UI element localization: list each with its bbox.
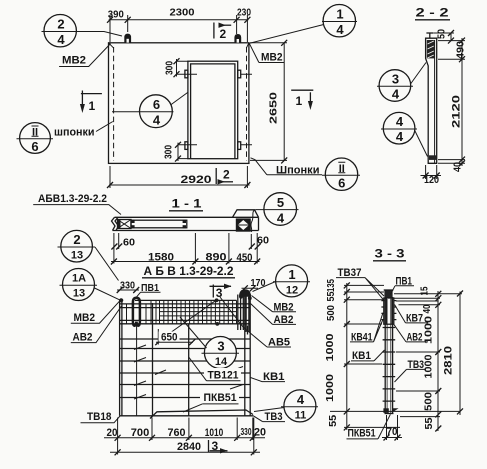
opening tab top-right bbox=[238, 70, 241, 78]
keys dashed line right bbox=[246, 47, 248, 161]
right dimension 2650 bbox=[250, 43, 287, 161]
label TV121 bbox=[204, 368, 241, 380]
svg-text:300: 300 bbox=[165, 61, 176, 75]
svg-text:11: 11 bbox=[295, 410, 307, 422]
svg-text:4: 4 bbox=[396, 129, 404, 144]
panel corner chamfer left bbox=[109, 43, 114, 48]
svg-text:2120: 2120 bbox=[451, 95, 463, 128]
svg-text:1580: 1580 bbox=[148, 252, 174, 264]
svg-text:13: 13 bbox=[71, 250, 83, 262]
leader 2/13 bbox=[95, 247, 119, 281]
callout circle 3/4 bbox=[379, 70, 411, 102]
embedded KV7 block bbox=[384, 298, 394, 324]
svg-text:50: 50 bbox=[437, 29, 448, 39]
svg-text:3: 3 bbox=[216, 286, 223, 300]
vertical bar under loop bbox=[136, 324, 138, 416]
section marker 3 top bbox=[212, 285, 214, 298]
leader 3/4 bbox=[411, 63, 427, 85]
main dim line bbox=[111, 261, 260, 263]
bottom dimension 2920 bbox=[110, 166, 247, 188]
svg-text:330: 330 bbox=[241, 427, 252, 438]
svg-text:МВ2: МВ2 bbox=[261, 52, 283, 64]
vertical bar at 700 bbox=[152, 303, 154, 416]
left chain line bbox=[346, 283, 348, 430]
svg-text:4: 4 bbox=[277, 211, 285, 226]
section marker 3 bottom bbox=[208, 440, 210, 452]
svg-text:4: 4 bbox=[297, 392, 305, 407]
svg-text:МВ2: МВ2 bbox=[62, 55, 86, 67]
svg-text:135: 135 bbox=[326, 279, 337, 292]
svg-text:1000: 1000 bbox=[325, 333, 336, 362]
section marker 2 top bbox=[213, 23, 215, 39]
callout circle 2/13 bbox=[61, 230, 93, 262]
dim 170 top right bbox=[242, 287, 259, 289]
svg-text:3: 3 bbox=[212, 439, 219, 453]
svg-text:760: 760 bbox=[168, 427, 186, 439]
svg-text:3 - 3: 3 - 3 bbox=[375, 247, 405, 261]
trapezoid bump right bbox=[233, 210, 259, 218]
section marker 2 bottom bbox=[215, 168, 217, 184]
cage horizontal bars bbox=[120, 339, 251, 398]
opening inner bbox=[191, 64, 235, 159]
bottom dim row 2 (2840) bbox=[110, 451, 260, 453]
section marker 1 right bbox=[291, 89, 313, 91]
svg-text:450: 450 bbox=[237, 252, 253, 264]
svg-text:2 - 2: 2 - 2 bbox=[416, 6, 449, 20]
svg-text:1010: 1010 bbox=[205, 427, 224, 439]
leader 4/11 bbox=[254, 408, 284, 412]
svg-text:2300: 2300 bbox=[170, 8, 195, 19]
svg-text:1000: 1000 bbox=[325, 373, 336, 402]
left embed block bbox=[118, 220, 132, 229]
callout circle 6/4 bbox=[140, 95, 173, 128]
svg-text:4: 4 bbox=[153, 113, 161, 128]
keys dashed line left bbox=[113, 47, 115, 161]
left chain ticks bbox=[344, 282, 350, 430]
top cap block bbox=[384, 290, 392, 298]
right loop blob bbox=[239, 289, 251, 297]
dim 50 bbox=[434, 33, 465, 41]
svg-text:650: 650 bbox=[161, 332, 178, 344]
right bar bundle bbox=[238, 295, 249, 333]
svg-text:1: 1 bbox=[336, 7, 343, 22]
svg-text:300: 300 bbox=[164, 145, 175, 159]
svg-text:1: 1 bbox=[89, 99, 96, 113]
svg-text:13: 13 bbox=[73, 288, 85, 300]
leader 1A/13 bbox=[95, 288, 120, 300]
svg-text:700: 700 bbox=[131, 427, 150, 439]
bottom lintel bar PKV51 bbox=[150, 410, 253, 419]
svg-text:60: 60 bbox=[123, 238, 135, 249]
svg-text:55: 55 bbox=[424, 417, 435, 429]
callout circle 4/11 bbox=[284, 390, 316, 422]
callout circle 1/4 bbox=[323, 5, 355, 37]
svg-text:60: 60 bbox=[257, 236, 269, 247]
member outline bbox=[426, 38, 437, 163]
right chain1 line bbox=[437, 291, 439, 431]
callout circle 1/12 bbox=[276, 265, 308, 297]
right chain1 ticks bbox=[435, 291, 441, 432]
svg-text:55: 55 bbox=[326, 291, 337, 301]
svg-text:4: 4 bbox=[57, 32, 65, 47]
svg-text:20: 20 bbox=[254, 427, 266, 439]
svg-text:2920: 2920 bbox=[181, 174, 212, 186]
diagonal leader D1 from marker 3 bbox=[170, 300, 216, 333]
overall chain 2810 bbox=[459, 292, 461, 416]
lifting loop left bbox=[124, 34, 131, 43]
svg-text:1000: 1000 bbox=[424, 354, 435, 378]
svg-text:ТВ18: ТВ18 bbox=[87, 411, 112, 423]
svg-text:500: 500 bbox=[326, 305, 337, 321]
dim extensions below bar bbox=[114, 233, 257, 264]
svg-text:МВ2: МВ2 bbox=[74, 312, 96, 324]
svg-text:2: 2 bbox=[73, 232, 80, 247]
svg-text:5: 5 bbox=[277, 195, 284, 210]
svg-text:490: 490 bbox=[456, 41, 467, 59]
svg-text:2810: 2810 bbox=[443, 346, 455, 375]
right edge verticals bbox=[245, 294, 250, 416]
vertical bar at opening edge bbox=[188, 324, 190, 416]
dim 330 top bbox=[117, 289, 139, 291]
bar outline with broken left end bbox=[115, 216, 259, 218]
svg-text:1 - 1: 1 - 1 bbox=[172, 197, 202, 211]
svg-text:2650: 2650 bbox=[269, 91, 280, 124]
leader shponki right bbox=[251, 158, 267, 175]
leader from 2/4 to loop bbox=[79, 32, 122, 37]
svg-text:15: 15 bbox=[420, 286, 431, 295]
leaders TV37 bbox=[365, 278, 385, 301]
callout circle II/6 right bbox=[325, 158, 357, 190]
junction dots bbox=[119, 298, 123, 302]
opening tab top-left bbox=[185, 70, 188, 78]
svg-text:2: 2 bbox=[223, 168, 230, 182]
callout circle 5/4 bbox=[264, 193, 297, 226]
svg-text:1: 1 bbox=[288, 267, 295, 282]
svg-text:1: 1 bbox=[296, 94, 303, 108]
svg-text:АВ2: АВ2 bbox=[73, 332, 93, 344]
embed side ticks bbox=[381, 301, 396, 320]
svg-text:ПКВ51: ПКВ51 bbox=[348, 428, 376, 440]
callout circle II/6 left (shponki) bbox=[20, 123, 51, 154]
svg-text:АБВ1.3-29-2.2: АБВ1.3-29-2.2 bbox=[38, 193, 107, 205]
top 300 dimension at opening bbox=[177, 61, 253, 74]
dim 650 bbox=[157, 329, 159, 345]
cage top chord lines bbox=[135, 299, 237, 301]
top dimension line 390/2300/230 bbox=[109, 19, 249, 21]
embed square with X bbox=[236, 218, 251, 231]
lifting loop left (PV1) bbox=[133, 298, 140, 326]
bottom dim row 1 line bbox=[104, 437, 265, 439]
svg-text:1А: 1А bbox=[72, 273, 86, 285]
section marker 1 left bbox=[81, 93, 102, 95]
svg-text:2: 2 bbox=[220, 27, 227, 41]
svg-text:шпонки: шпонки bbox=[54, 127, 95, 139]
svg-text:390: 390 bbox=[108, 10, 124, 21]
svg-text:4: 4 bbox=[392, 87, 400, 102]
leader from 1/4 to panel corner bbox=[249, 25, 323, 44]
right chain1 extensions bbox=[393, 294, 462, 417]
svg-text:70: 70 bbox=[387, 426, 398, 438]
leader shponki left bbox=[96, 122, 113, 132]
mesh vertical bars dense band bbox=[127, 300, 237, 323]
right chain 490/2120/40 bbox=[438, 59, 465, 163]
left chain extensions bbox=[330, 285, 460, 427]
svg-text:40: 40 bbox=[453, 162, 464, 172]
svg-text:170: 170 bbox=[251, 278, 266, 289]
callout circle 4/4 bbox=[383, 112, 415, 144]
60 ticks right bbox=[249, 244, 261, 250]
callout circle 3/14 bbox=[204, 337, 236, 369]
svg-text:6: 6 bbox=[338, 176, 345, 191]
svg-text:40: 40 bbox=[422, 304, 433, 313]
svg-text:ТВ121: ТВ121 bbox=[208, 370, 239, 382]
svg-text:120: 120 bbox=[424, 175, 439, 186]
opening outer bbox=[188, 61, 238, 159]
svg-text:А Б В 1.3-29-2.2: А Б В 1.3-29-2.2 bbox=[144, 264, 234, 278]
svg-text:500: 500 bbox=[424, 392, 435, 411]
bottom 300 dimension at opening bbox=[178, 145, 252, 159]
cage bottom chord bbox=[120, 415, 254, 417]
opening tab bottom-left bbox=[185, 142, 188, 150]
svg-text:6: 6 bbox=[153, 97, 160, 112]
leader 5/4 bbox=[251, 210, 256, 232]
svg-text:890: 890 bbox=[206, 252, 227, 264]
diagonal leader D2 to AV5 bbox=[220, 297, 243, 327]
svg-text:3: 3 bbox=[392, 72, 399, 87]
svg-text:230: 230 bbox=[237, 8, 251, 19]
lifting loop right bbox=[234, 34, 241, 43]
cage left edge double vertical bbox=[120, 300, 122, 416]
panel corner chamfer right bbox=[246, 43, 249, 48]
svg-text:2840: 2840 bbox=[177, 441, 201, 453]
svg-text:2: 2 bbox=[57, 17, 64, 32]
svg-text:12: 12 bbox=[286, 285, 298, 297]
top pin (loop end) bbox=[429, 33, 431, 38]
bottom hooks black bbox=[383, 408, 388, 413]
leader 3/14 bbox=[180, 317, 207, 348]
stirrup hook ticks bbox=[134, 345, 243, 399]
member verticals bbox=[385, 297, 392, 414]
dim 120 bottom bbox=[426, 165, 437, 179]
svg-text:1000: 1000 bbox=[424, 315, 435, 344]
svg-text:6: 6 bbox=[31, 139, 38, 154]
panel outline bbox=[109, 43, 249, 164]
svg-text:14: 14 bbox=[215, 356, 228, 368]
opening tab bottom-right bbox=[238, 142, 241, 150]
svg-text:4: 4 bbox=[396, 114, 404, 129]
svg-text:3: 3 bbox=[217, 339, 224, 354]
dim 70 bottom bbox=[387, 415, 398, 440]
60 ticks left bbox=[111, 244, 122, 250]
bottom dim row 1 extensions bbox=[118, 418, 254, 455]
member bottom bbox=[385, 413, 394, 415]
callout circle 2/4 bbox=[44, 15, 76, 47]
stirrup ticks along member bbox=[383, 328, 396, 402]
leader 4/4 bbox=[415, 130, 428, 157]
embedded MB2 block (hatched) bbox=[427, 40, 435, 58]
inner rectangle (panel core) bbox=[131, 220, 187, 228]
bar end thick mark bbox=[247, 326, 249, 335]
callout circle 1A/13 bbox=[63, 269, 95, 301]
svg-text:20: 20 bbox=[107, 427, 118, 439]
svg-text:55: 55 bbox=[328, 414, 339, 426]
svg-text:КВ1: КВ1 bbox=[352, 350, 371, 362]
leader 1/12 bbox=[253, 282, 276, 292]
svg-text:4: 4 bbox=[336, 22, 344, 37]
label PKV51 bbox=[200, 391, 239, 403]
svg-text:330: 330 bbox=[120, 281, 135, 292]
leader from 6/4 to opening bbox=[171, 92, 189, 105]
svg-text:ПКВ51: ПКВ51 bbox=[204, 392, 237, 404]
bottom embed block bbox=[429, 155, 437, 160]
